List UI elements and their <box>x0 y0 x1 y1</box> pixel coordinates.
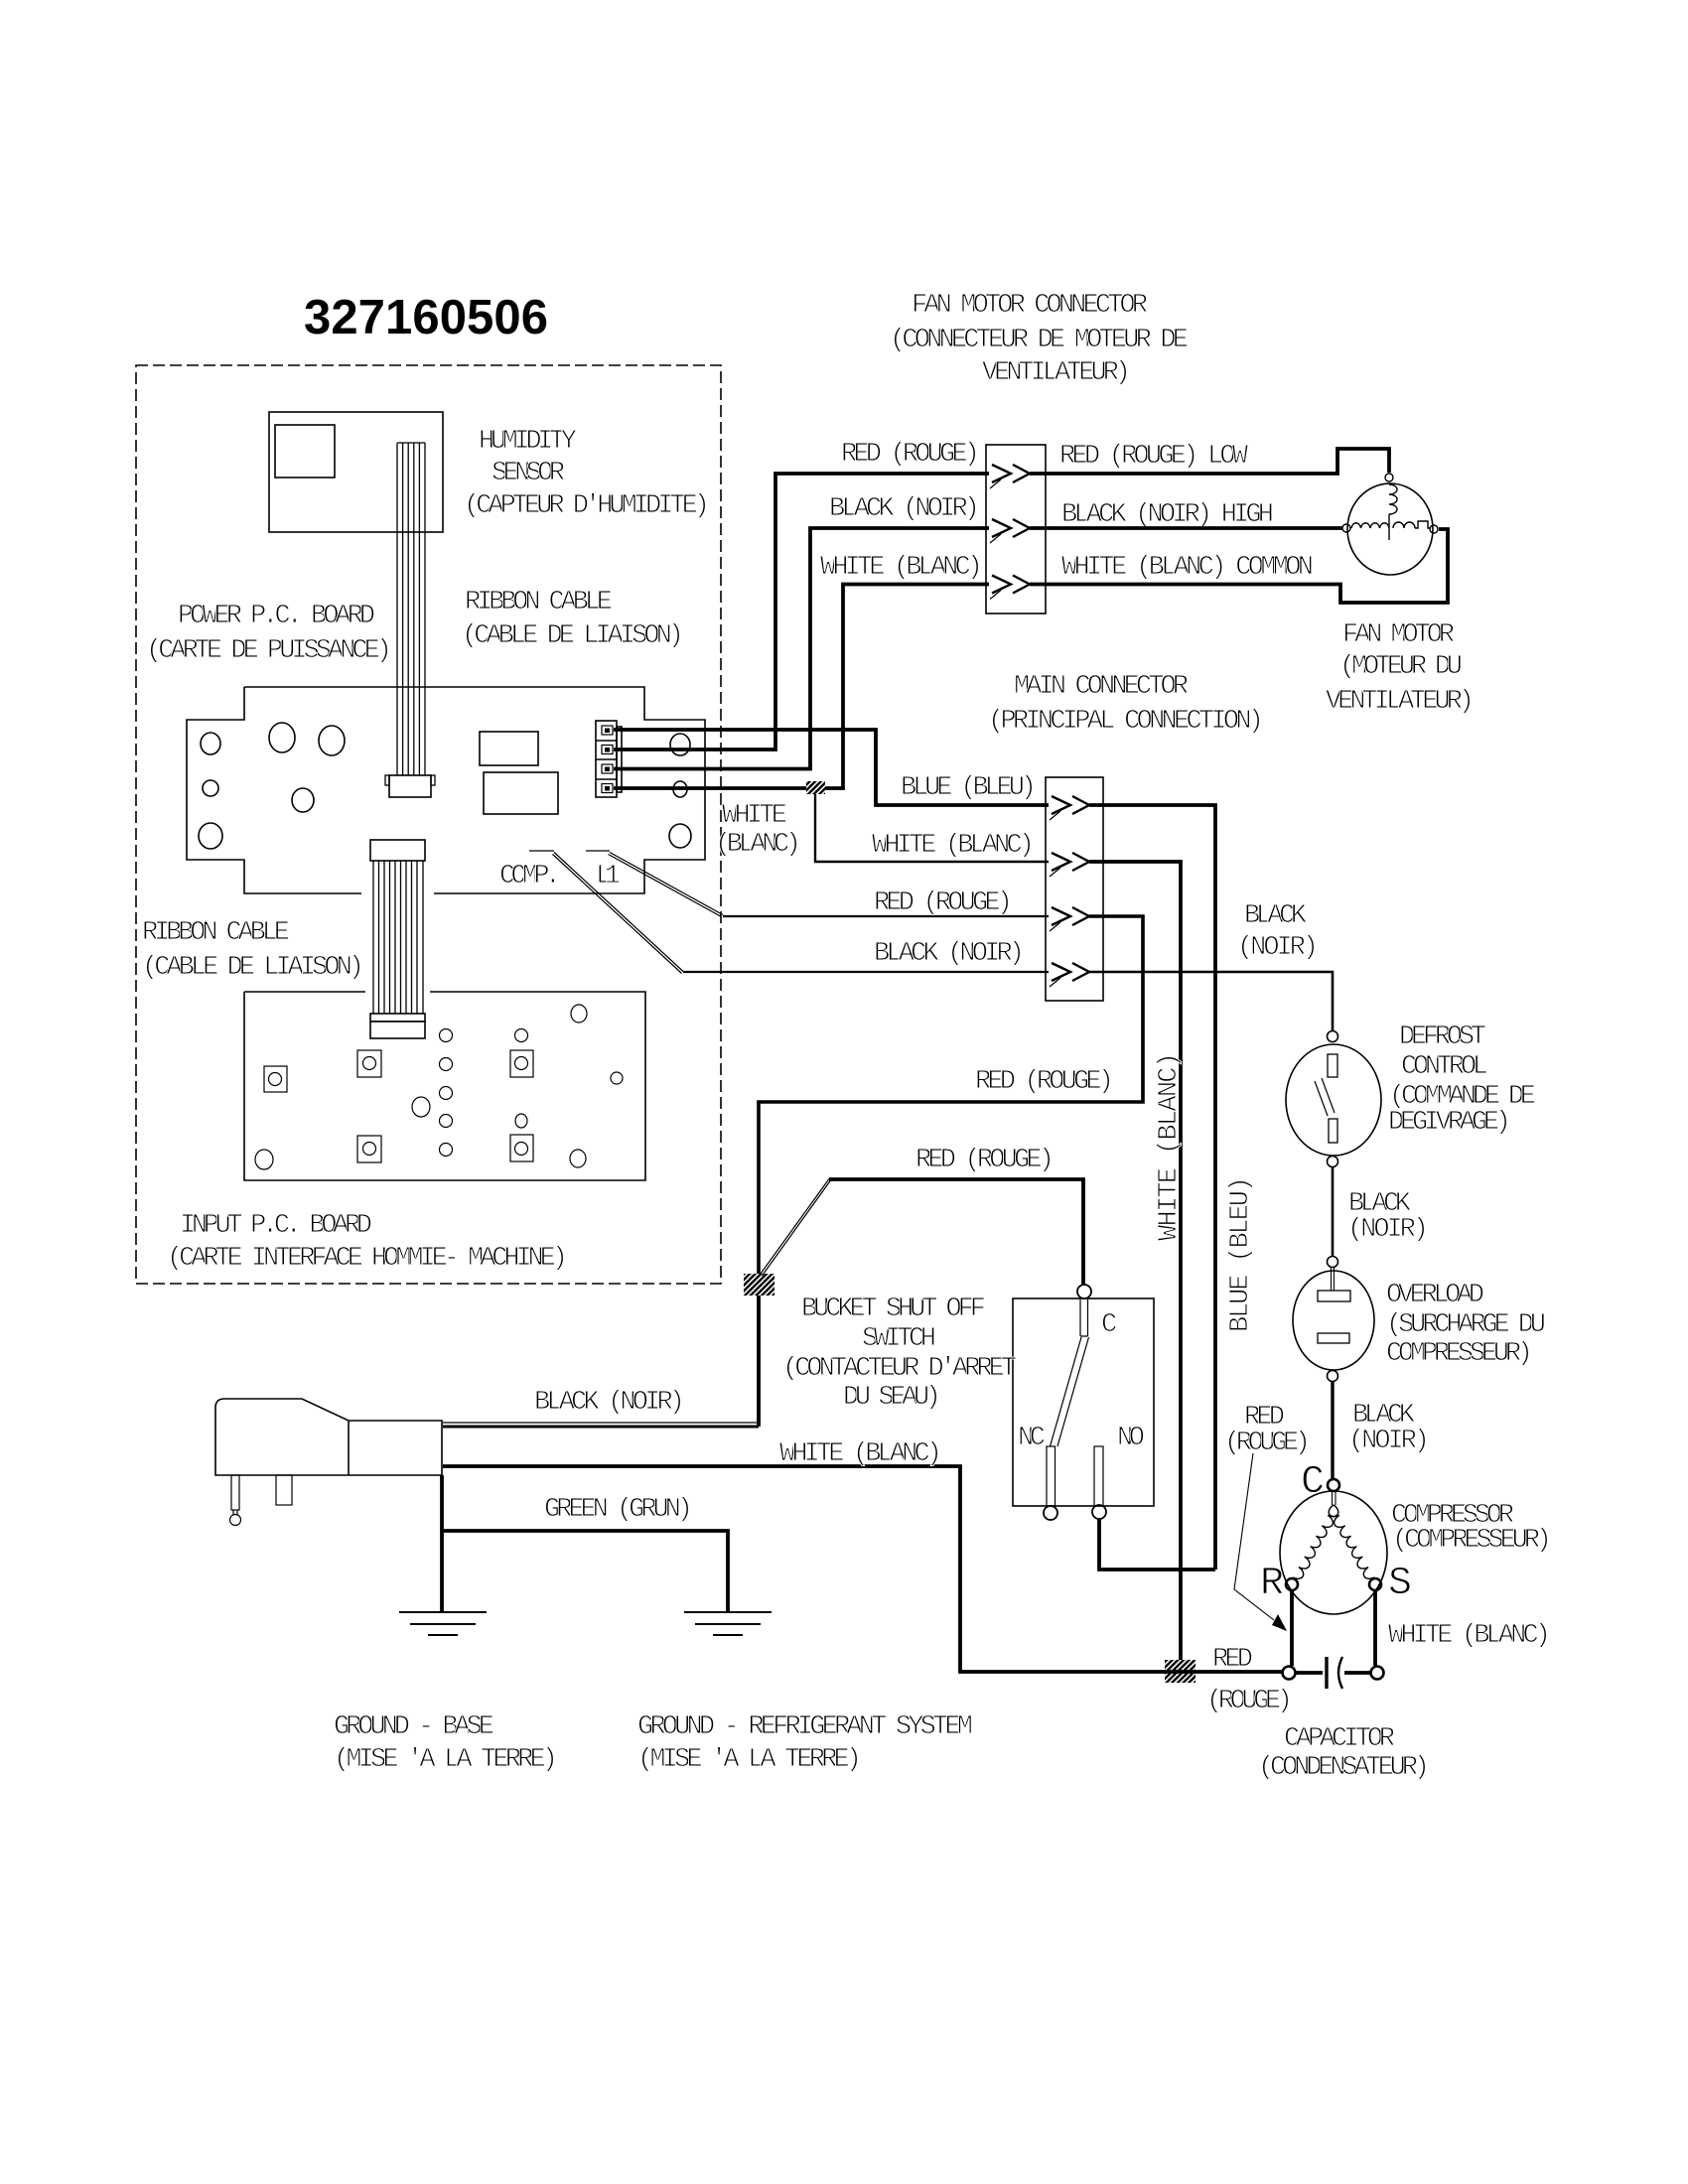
svg-text:RED (ROUGE): RED (ROUGE) <box>841 440 980 470</box>
main connector pin 1 chevrons <box>1050 796 1089 820</box>
svg-text:NO: NO <box>1117 1424 1145 1453</box>
svg-text:(CAPTEUR D'HUMIDITE): (CAPTEUR D'HUMIDITE) <box>464 491 710 521</box>
wire black main connector to defrost control <box>1089 972 1333 1030</box>
label INPUT P.C. BOARD (CARTE INTERFACE HOMMIE- MACHINE) <box>167 1211 568 1274</box>
label OVERLOAD (SURCHARGE DU COMPRESSEUR) <box>1386 1281 1546 1369</box>
wire black high to fan motor <box>1030 526 1342 530</box>
svg-text:RED (ROUGE): RED (ROUGE) <box>874 888 1013 918</box>
svg-text:C: C <box>1101 1310 1117 1340</box>
svg-text:BLUE (BLEU): BLUE (BLEU) <box>1226 1176 1256 1332</box>
svg-text:WHITE (BLANC): WHITE (BLANC) <box>872 831 1035 861</box>
svg-text:S: S <box>1388 1562 1412 1606</box>
wire R to capacitor <box>1290 1590 1294 1666</box>
svg-text:WHITE (BLANC) COMMON: WHITE (BLANC) COMMON <box>1061 553 1314 583</box>
wire splice diagonal to bucket switch C <box>761 1179 1083 1286</box>
svg-text:POWER P.C. BOARD: POWER P.C. BOARD <box>178 602 375 631</box>
svg-text:NC: NC <box>1018 1424 1046 1453</box>
leader line red to R wire <box>1234 1453 1287 1631</box>
wire green plug to grounds <box>442 1475 728 1612</box>
svg-text:INPUT P.C. BOARD: INPUT P.C. BOARD <box>180 1211 372 1241</box>
label POWER P.C. BOARD (CARTE DE PUISSANCE) <box>146 602 392 666</box>
svg-text:RED (ROUGE) LOW: RED (ROUGE) LOW <box>1059 442 1249 472</box>
label FAN MOTOR (MOTEUR DU VENTILATEUR) <box>1326 620 1475 717</box>
wire red L1 to main connector <box>723 915 1049 917</box>
compressor <box>1280 1479 1387 1614</box>
svg-text:DU SEAU): DU SEAU) <box>843 1383 941 1413</box>
svg-text:R: R <box>1260 1562 1284 1606</box>
svg-text:CONTROL: CONTROL <box>1401 1052 1488 1082</box>
humidity sensor <box>269 412 443 532</box>
ground base <box>399 1612 487 1635</box>
svg-text:MAIN CONNECTOR: MAIN CONNECTOR <box>1014 672 1189 702</box>
input P.C. board <box>244 992 645 1180</box>
svg-text:SWITCH: SWITCH <box>862 1324 936 1354</box>
overload protector <box>1293 1257 1374 1382</box>
wire NO to blue <box>1099 1519 1215 1570</box>
svg-text:(MOTEUR DU: (MOTEUR DU <box>1339 652 1463 682</box>
connector J1 4-pin on power board <box>596 721 622 797</box>
svg-text:VENTILATEUR): VENTILATEUR) <box>982 358 1131 388</box>
power P.C. board <box>187 687 705 893</box>
ground refrigerant system <box>684 1612 772 1635</box>
junction splice white/capacitor <box>1165 1660 1196 1683</box>
wire pin4 white to fan connector <box>614 585 989 789</box>
main connector pin 3 chevrons <box>1050 907 1089 931</box>
fan connector pin 3 chevrons <box>990 576 1030 600</box>
main connector pin 2 chevrons <box>1050 853 1089 877</box>
svg-text:COMPRESSEUR): COMPRESSEUR) <box>1386 1339 1533 1369</box>
fan connector pin 1 chevrons <box>990 465 1030 488</box>
svg-text:(NOIR): (NOIR) <box>1237 933 1319 963</box>
wire white splice to main connector <box>815 794 1049 862</box>
capacitor <box>1283 1657 1384 1689</box>
label GROUND - REFRIGERANT SYSTEM (MISE 'A LA TERRE) <box>637 1712 973 1775</box>
svg-text:WHITE (BLANC): WHITE (BLANC) <box>1388 1621 1551 1651</box>
svg-text:(CONDENSATEUR): (CONDENSATEUR) <box>1258 1753 1430 1783</box>
svg-text:BLACK (NOIR): BLACK (NOIR) <box>829 494 980 524</box>
wire pin2 red to fan connector <box>614 474 989 750</box>
label WHITE (BLANC) near dashed edge <box>715 801 801 860</box>
wire red main connector to splice <box>759 916 1143 1427</box>
wire red low to fan motor <box>1030 449 1389 474</box>
wire blue main connector down <box>1089 805 1215 1570</box>
svg-text:(CABLE DE LIAISON): (CABLE DE LIAISON) <box>142 953 364 983</box>
svg-text:327160506: 327160506 <box>304 291 548 344</box>
label BUCKET SHUT OFF SWITCH (CONTACTEUR D'ARRET DU SEAU) <box>782 1295 1017 1413</box>
wire white plug to capacitor junction <box>443 1466 1282 1672</box>
svg-text:(ROUGE): (ROUGE) <box>1206 1687 1293 1716</box>
svg-text:(CONNECTEUR DE MOTEUR DE: (CONNECTEUR DE MOTEUR DE <box>890 326 1189 355</box>
wire white main connector down <box>1089 862 1181 1660</box>
svg-text:(COMPRESSEUR): (COMPRESSEUR) <box>1392 1526 1552 1556</box>
label RIBBON CABLE (CABLE DE LIAISON) lower <box>142 918 364 983</box>
label RED (ROUGE) leader text <box>1224 1403 1311 1458</box>
label FAN MOTOR CONNECTOR (CONNECTEUR DE MOTEUR DE VENTILATEUR) <box>890 291 1189 388</box>
svg-text:(CARTE DE PUISSANCE): (CARTE DE PUISSANCE) <box>146 636 392 666</box>
svg-text:(BLANC): (BLANC) <box>715 830 801 860</box>
wire black COMP. to main connector <box>683 971 1049 973</box>
label MAIN CONNECTOR (PRINCIPAL CONNECTION) <box>988 672 1264 737</box>
svg-text:(CABLE DE LIAISON): (CABLE DE LIAISON) <box>462 621 684 651</box>
label RED (ROUGE) capacitor <box>1206 1645 1293 1716</box>
main connector pin 4 chevrons <box>1050 963 1089 987</box>
label HUMIDITY SENSOR (CAPTEUR D'HUMIDITE) <box>464 427 710 521</box>
bucket shut off switch <box>1013 1285 1154 1520</box>
dashed enclosure box <box>136 365 721 1284</box>
fan motor M1 <box>1342 474 1438 575</box>
svg-text:RIBBON CABLE: RIBBON CABLE <box>142 918 290 948</box>
label BLACK (NOIR) lower <box>1348 1401 1430 1456</box>
svg-text:(CONTACTEUR D'ARRET: (CONTACTEUR D'ARRET <box>782 1354 1017 1384</box>
svg-text:(ROUGE): (ROUGE) <box>1224 1429 1311 1458</box>
svg-text:WHITE (BLANC): WHITE (BLANC) <box>1155 1052 1185 1241</box>
svg-text:BLACK (NOIR): BLACK (NOIR) <box>534 1388 685 1418</box>
label CAPACITOR (CONDENSATEUR) <box>1258 1724 1430 1783</box>
wire pin3 black to fan connector <box>614 528 989 769</box>
svg-text:L1: L1 <box>596 862 621 891</box>
svg-text:DEGIVRAGE): DEGIVRAGE) <box>1388 1108 1511 1138</box>
svg-text:CAPACITOR: CAPACITOR <box>1284 1724 1395 1754</box>
svg-text:COMP.: COMP. <box>499 862 561 891</box>
wire overload to compressor <box>1331 1381 1334 1478</box>
label RIBBON CABLE (CABLE DE LIAISON) upper <box>462 588 684 651</box>
label COMPRESSOR (COMPRESSEUR) <box>1391 1501 1552 1556</box>
wire S to capacitor <box>1373 1590 1377 1666</box>
wire pin1 blue to main connector <box>614 730 1049 805</box>
svg-text:FAN MOTOR: FAN MOTOR <box>1342 620 1455 650</box>
label GROUND - BASE (MISE 'A LA TERRE) <box>334 1712 558 1775</box>
svg-text:GREEN (GRUN): GREEN (GRUN) <box>544 1495 693 1525</box>
fan connector pin 2 chevrons <box>990 519 1030 543</box>
svg-text:(CARTE INTERFACE HOMMIE- MACHI: (CARTE INTERFACE HOMMIE- MACHINE) <box>167 1244 568 1274</box>
svg-text:BUCKET SHUT OFF: BUCKET SHUT OFF <box>801 1295 986 1324</box>
svg-text:BLACK: BLACK <box>1244 901 1308 931</box>
svg-text:(PRINCIPAL CONNECTION): (PRINCIPAL CONNECTION) <box>988 707 1264 737</box>
main connector box <box>1046 777 1103 1001</box>
svg-text:(MISE 'A LA TERRE): (MISE 'A LA TERRE) <box>637 1745 862 1775</box>
svg-text:RED (ROUGE): RED (ROUGE) <box>915 1146 1055 1175</box>
label BLACK (NOIR) right of main connector <box>1237 901 1319 963</box>
svg-text:RED (ROUGE): RED (ROUGE) <box>975 1067 1114 1097</box>
svg-text:WHITE (BLANC): WHITE (BLANC) <box>779 1439 942 1469</box>
fan motor connector box <box>986 445 1046 614</box>
terminal L1 <box>586 851 723 917</box>
svg-text:HUMIDITY: HUMIDITY <box>479 427 577 457</box>
svg-text:BLACK (NOIR) HIGH: BLACK (NOIR) HIGH <box>1061 500 1274 530</box>
ribbon cable 2 <box>370 840 425 1038</box>
svg-text:VENTILATEUR): VENTILATEUR) <box>1326 687 1475 717</box>
wire black plug to splice <box>443 1296 759 1427</box>
svg-text:FAN MOTOR CONNECTOR: FAN MOTOR CONNECTOR <box>912 291 1148 321</box>
junction splice red/black <box>744 1274 774 1296</box>
svg-text:SENSOR: SENSOR <box>492 459 565 488</box>
label BLACK (NOIR) mid <box>1347 1189 1429 1245</box>
terminal COMP. <box>529 851 683 974</box>
svg-text:WHITE: WHITE <box>722 801 787 831</box>
svg-text:GROUND - REFRIGERANT SYSTEM: GROUND - REFRIGERANT SYSTEM <box>637 1712 973 1742</box>
svg-text:WHITE (BLANC): WHITE (BLANC) <box>820 553 983 583</box>
svg-text:RIBBON CABLE: RIBBON CABLE <box>465 588 613 617</box>
svg-text:(SURCHARGE DU: (SURCHARGE DU <box>1386 1310 1546 1340</box>
junction splice white <box>806 781 825 794</box>
wire defrost to overload <box>1332 1167 1335 1256</box>
wire white common to fan motor <box>1030 529 1448 603</box>
defrost control <box>1286 1031 1381 1167</box>
svg-text:BLUE (BLEU): BLUE (BLEU) <box>901 773 1037 803</box>
label DEFROST CONTROL (COMMANDE DE DEGIVRAGE) <box>1388 1023 1536 1138</box>
svg-text:DEFROST: DEFROST <box>1399 1023 1486 1052</box>
svg-text:GROUND - BASE: GROUND - BASE <box>334 1712 494 1742</box>
power plug <box>215 1399 442 1526</box>
svg-text:(MISE 'A LA TERRE): (MISE 'A LA TERRE) <box>334 1745 558 1775</box>
svg-text:BLACK (NOIR): BLACK (NOIR) <box>874 939 1025 969</box>
svg-text:C: C <box>1301 1460 1325 1505</box>
ribbon cable 1 <box>385 443 435 797</box>
svg-text:OVERLOAD: OVERLOAD <box>1386 1281 1484 1310</box>
svg-text:(NOIR): (NOIR) <box>1347 1215 1429 1245</box>
svg-text:(NOIR): (NOIR) <box>1348 1427 1430 1456</box>
